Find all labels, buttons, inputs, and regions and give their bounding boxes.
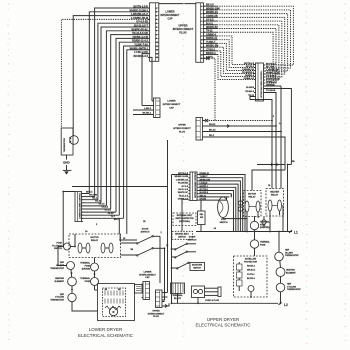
selector block under U3 [198,211,206,225]
svg-text:INTERCONNECT: INTERCONNECT [173,128,191,130]
relay coil K3 [262,216,266,228]
svg-text:LOWER: LOWER [167,101,176,103]
svg-text:PK-5C: PK-5C [108,213,115,215]
svg-text:1A: 1A [85,230,88,233]
svg-text:PK-BK/RD-5: PK-BK/RD-5 [242,72,255,74]
svg-text:INTERCONNECT: INTERCONNECT [148,313,165,315]
terminal block TB1 [171,283,185,300]
svg-text:ELECTRICAL SCHEMATIC: ELECTRICAL SCHEMATIC [195,322,251,327]
wire U3 to broken belt switch [182,199,188,231]
svg-text:FUSE: FUSE [85,266,91,268]
svg-text:L-BU-2: L-BU-2 [144,108,152,110]
hi-limit thermostat (lower) [50,262,74,270]
svg-text:L2: L2 [284,303,288,307]
heating element (lower) [54,277,76,286]
svg-text:10: 10 [201,39,203,41]
svg-text:8: 8 [201,32,202,34]
svg-text:CAP: CAP [167,18,172,21]
svg-text:SWITCH: SWITCH [188,239,197,241]
wires relays to L1 bus [247,205,283,232]
svg-text:BU-21: BU-21 [95,201,102,203]
svg-text:UPPER: UPPER [178,125,186,127]
svg-text:HI-LIMIT: HI-LIMIT [285,252,294,254]
svg-text:FUSE: FUSE [260,224,266,226]
svg-text:WH/BK-8: WH/BK-8 [245,75,255,77]
wire link to upper schematic [72,186,168,188]
relay coil K2 [238,196,242,218]
svg-text:RD-2: RD-2 [209,135,215,137]
svg-text:1A-BK/6: 1A-BK/6 [246,86,255,89]
svg-text:14: 14 [156,56,158,59]
svg-text:PLUG: PLUG [179,31,186,35]
svg-text:HEATING: HEATING [286,269,295,272]
connector P1 lower interconnect cap [148,3,159,62]
svg-text:HEATING: HEATING [55,277,64,280]
svg-text:SWITCH: SWITCH [141,232,150,234]
wire vertical link between schematics [167,140,169,293]
svg-text:CYCLING: CYCLING [287,286,296,288]
svg-text:2: 2 [231,195,233,197]
cycling thermostat (upper) [276,283,301,292]
svg-text:11: 11 [156,46,158,48]
svg-text:CAP: CAP [145,276,150,279]
wire bundle P2 to left side of board connector [203,36,255,80]
svg-text:1A: 1A [214,227,217,230]
svg-text:2: 2 [273,116,275,118]
wire fuse chain (upper) [254,216,256,256]
wire fuse chain (lower) [95,258,98,291]
svg-text:EXTERNAL BELT: EXTERNAL BELT [177,214,193,217]
svg-text:ELEMENT: ELEMENT [286,273,296,275]
svg-text:ELEMENT: ELEMENT [54,281,64,283]
svg-text:OR-4.2: OR-4.2 [102,206,109,209]
svg-text:PUSH: PUSH [56,242,62,244]
thermal fuse F2 (lower) [80,277,98,285]
svg-text:8: 8 [156,34,157,36]
svg-text:LOWER MACHINE CONTROL: LOWER MACHINE CONTROL [78,192,81,219]
svg-text:18: 18 [268,185,271,187]
wire across top between P1 and P2 [159,3,196,5]
svg-text:HBF: HBF [60,262,65,264]
connector P6 upper interconnect plug (bottom) [156,290,164,308]
svg-text:2: 2 [161,232,163,234]
svg-text:12: 12 [156,50,158,52]
svg-text:13: 13 [201,51,203,53]
svg-text:THERMOSTAT: THERMOSTAT [50,267,64,270]
pin labels U2 fan [86,191,119,220]
svg-text:1-WH/BK-2A: 1-WH/BK-2A [242,68,255,71]
svg-text:18: 18 [166,245,169,247]
wire volt switch to L1 bus [223,218,247,232]
hi-limit thermostat (upper) [275,249,300,260]
wire L1 feeder from U1 [265,89,291,165]
connector U2 lower machine control board [75,192,83,222]
svg-text:15: 15 [201,58,203,60]
wire fan right of U3 [199,175,245,232]
svg-text:(OPTIONAL): (OPTIONAL) [179,220,190,223]
svg-text:7: 7 [201,28,202,30]
svg-text:SWITCH: SWITCH [178,236,186,238]
label P5 [139,271,156,279]
svg-text:RELAY: RELAY [91,239,99,242]
label P4 [173,125,191,134]
svg-text:PK-BK/RD: PK-BK/RD [178,183,189,185]
svg-text:THERMAL: THERMAL [80,262,91,265]
wire labels right of U3 [200,173,211,201]
svg-text:MOTOR: MOTOR [248,194,257,196]
connector P4 upper interconnect plug (4-pin) [196,118,204,141]
svg-text:SW: SW [200,217,203,219]
connector P3 lower interconnect cap (4-pin) [152,98,160,118]
svg-text:BROKEN BELT: BROKEN BELT [175,233,189,235]
broken belt switch box [172,231,193,239]
svg-text:DOOR: DOOR [142,229,149,231]
svg-text:2: 2 [96,224,98,226]
label L2 [279,302,288,307]
svg-text:UPPER MACHINE CONTROL: UPPER MACHINE CONTROL [194,171,197,198]
svg-text:FUSE: FUSE [85,281,91,283]
svg-text:1: 1 [156,8,157,10]
svg-text:SEL: SEL [200,214,205,216]
svg-text:2: 2 [201,10,202,12]
svg-text:1-WH/BK-3B: 1-WH/BK-3B [266,70,279,72]
wire top rail of upper schematic [257,163,285,166]
svg-text:12: 12 [201,47,203,49]
svg-text:WH/BK-10.5M: WH/BK-10.5M [266,73,280,75]
wire labels at P1 [130,6,149,58]
svg-text:HBF: HBF [285,249,290,251]
svg-text:BR-2: BR-2 [114,219,120,221]
svg-text:PLUG: PLUG [153,316,159,318]
svg-text:5: 5 [201,21,202,23]
svg-text:LOWER: LOWER [166,11,175,14]
relay K2 motor relay (upper) [244,191,262,217]
svg-text:INTERCONNECT: INTERCONNECT [161,14,181,17]
wire harness from P1 (left fan turning down) [61,8,152,234]
svg-text:UPPER: UPPER [179,23,188,27]
svg-text:GND: GND [63,161,71,165]
wires from P6 [164,293,170,308]
svg-text:14: 14 [201,53,203,56]
label upper interconnect plug [173,23,194,34]
label L1 [289,230,298,235]
thermistor RT1 [61,128,78,155]
svg-text:LOWER: LOWER [144,271,152,273]
wire relay to door switch [119,218,137,240]
wire L2 bus [172,302,279,304]
svg-text:3: 3 [156,15,157,17]
ground symbol [63,155,72,175]
svg-text:UPPER: UPPER [152,310,160,312]
connector U3 upper machine control board [188,171,198,200]
svg-text:CAP: CAP [169,106,174,109]
svg-text:THERMOSTAT: THERMOSTAT [285,254,299,257]
label P3 [163,101,181,110]
svg-text:FUSE: FUSE [260,244,266,246]
svg-text:WH-BU-4: WH-BU-4 [247,269,256,272]
svg-text:GY-9.5: GY-9.5 [105,210,112,212]
door switch S4 (upper) [172,236,197,258]
wire door switch down [162,248,165,300]
svg-text:TN-6.5: TN-6.5 [98,204,105,206]
svg-text:1-WH/BK-2A: 1-WH/BK-2A [176,178,189,181]
svg-text:THERMOSTAT: THERMOSTAT [287,288,301,291]
svg-text:1M: 1M [105,289,108,291]
wire P4 pin4 [204,135,285,170]
wire feed to push-to-start switch [63,192,75,247]
svg-text:RD-BK-2: RD-BK-2 [247,266,255,268]
caption lower dryer electrical schematic [78,327,134,338]
svg-text:10: 10 [156,42,158,44]
wire labels left of U1 [242,63,255,97]
svg-text:THERMISTOR: THERMISTOR [64,138,66,153]
svg-text:GY-BU-5.5: GY-BU-5.5 [266,76,277,78]
svg-text:WH-10M: WH-10M [89,194,97,196]
svg-text:M: M [113,312,115,314]
wire feeder x272 [250,97,272,189]
svg-text:INTERCONNECT: INTERCONNECT [139,274,156,276]
svg-text:THERMAL: THERMAL [260,220,271,223]
svg-text:PROTECTOR: PROTECTOR [244,261,258,263]
wires into P3 lower pins [133,108,154,115]
svg-text:LOWER DRYER: LOWER DRYER [89,327,123,332]
svg-text:THERMAL: THERMAL [80,277,91,280]
svg-text:2: 2 [156,12,157,14]
svg-text:INTERCONNECT: INTERCONNECT [163,104,181,106]
svg-text:L1: L1 [294,231,298,235]
svg-text:RD-BU-3: RD-BU-3 [245,91,254,93]
wire P4 pin3 [204,130,281,132]
svg-text:4: 4 [156,18,157,21]
svg-text:5B: 5B [292,161,295,163]
svg-text:BK/RD-1-6.5: BK/RD-1-6.5 [134,55,149,58]
thermal fuse F3 (heater) [250,220,270,229]
svg-text:1B: 1B [143,221,146,223]
label GND [63,161,71,165]
svg-text:BK/TN-6.5: BK/TN-6.5 [266,64,277,66]
svg-text:OR/BK-4.2: OR/BK-4.2 [244,77,255,80]
svg-text:BK-RD-6: BK-RD-6 [247,278,255,280]
svg-text:TO BASE: TO BASE [266,89,276,92]
svg-text:RELAY: RELAY [248,196,256,199]
caption upper dryer electrical schematic [195,317,251,328]
wire labels right of U1 [266,64,280,87]
push-to-start switch S1 [64,234,76,250]
svg-text:WH/BU-5.5: WH/BU-5.5 [266,82,277,84]
svg-text:9: 9 [201,36,202,38]
svg-text:DOOR: DOOR [189,236,196,238]
svg-text:MOTOR: MOTOR [90,237,99,239]
wire U3 to selector block [200,201,202,232]
svg-text:13: 13 [156,53,158,55]
svg-text:11: 11 [201,43,203,45]
svg-text:SWITCH: SWITCH [193,268,201,270]
svg-text:RD-2: RD-2 [92,198,98,200]
svg-text:BK-6.5: BK-6.5 [86,191,93,193]
svg-text:RD-TN-2: RD-TN-2 [246,66,255,68]
svg-text:HBF: HBF [60,294,65,296]
svg-text:SATELLITE: SATELLITE [245,257,257,260]
wire with inline splice from P2 pin 15 [203,57,215,121]
svg-text:VOLT: VOLT [221,219,227,221]
svg-text:CYCLING: CYCLING [55,297,64,299]
label P6 [148,310,165,318]
drive motor M1 (lower) [98,284,135,321]
svg-text:SWITCH/DETECTOR: SWITCH/DETECTOR [175,218,194,220]
svg-text:SWITCH: SWITCH [220,222,228,224]
wires to L2 bus [178,292,252,304]
svg-text:1: 1 [201,6,202,8]
label push-to-start [52,242,63,250]
svg-text:BK/TN-6.5: BK/TN-6.5 [244,63,255,65]
svg-text:HBF: HBF [287,283,292,285]
heating element (upper) [276,268,296,277]
wire thermostat chain (lower) [58,247,98,312]
svg-text:BK-RD-1: BK-RD-1 [142,113,151,115]
svg-text:5B: 5B [131,249,134,251]
svg-text:WH/PK-5C: WH/PK-5C [178,192,189,194]
svg-text:THERMAL: THERMAL [260,240,271,243]
svg-text:(HEATER): (HEATER) [260,226,270,229]
svg-text:2M: 2M [118,289,121,291]
svg-text:MOISTURE: MOISTURE [192,265,203,267]
svg-text:3: 3 [201,13,202,15]
external belt switch/detector (optional) [173,213,196,226]
svg-text:7: 7 [156,31,157,33]
wire junction dots [62,120,288,305]
power cord and plug [192,286,222,302]
wire P4 pin2 [204,124,276,127]
svg-text:GY-TN-1: GY-TN-1 [247,274,254,276]
cycling thermostat (lower) [50,293,76,301]
wire labels at P2 [206,4,220,59]
wire door switch to P5 [159,236,161,283]
svg-text:HEATER: HEATER [270,191,279,194]
svg-text:THERMOSTAT: THERMOSTAT [50,299,64,302]
moisture switch S5 [172,262,205,270]
thermal fuse F1 (lower) [80,262,98,271]
wire labels left of U3 [174,173,188,201]
svg-text:PLUG: PLUG [179,131,185,133]
svg-text:BK-6.5: BK-6.5 [209,130,216,132]
thermal fuse F4 [250,240,270,248]
wire L1 bus [196,231,292,233]
door switch S2 (lower) [121,229,165,257]
wire left rail (upper schematic) [172,175,189,304]
label to-base [266,89,276,92]
svg-text:ELECTRICAL SCHEMATIC: ELECTRICAL SCHEMATIC [78,333,134,338]
buzzer BZ1 [135,285,144,294]
wire feeder x281 [265,86,281,189]
satellite protector module [234,256,268,297]
connector P5 lower interconnect cap (bottom) [142,282,150,300]
svg-text:UPPER MACHINE CONTROL: UPPER MACHINE CONTROL [260,70,263,98]
wire thermostat chain (upper) [279,232,281,304]
svg-text:WH/BK-10.5M: WH/BK-10.5M [174,176,188,178]
svg-text:5: 5 [156,23,157,25]
relay K1 motor relay (lower) [69,234,121,258]
connector P2 upper interconnect plug [196,3,205,63]
svg-text:TN-21-6.5: TN-21-6.5 [179,195,189,197]
svg-text:UPPER DRYER: UPPER DRYER [207,317,240,322]
volt switch S3 [218,197,229,224]
connector U1 machine control board header [254,63,265,101]
junction reference numbers [85,116,295,251]
svg-text:GY-9.5: GY-9.5 [182,186,189,188]
wire feeder x276 [265,93,276,189]
svg-text:6: 6 [201,25,202,27]
relay K3 heater relay (upper) [266,189,284,217]
svg-text:YL-7: YL-7 [111,216,116,218]
svg-text:WH/PK-(R)-5C: WH/PK-(R)-5C [266,79,280,81]
svg-text:WH-21: WH-21 [209,124,216,126]
wire L1 drop [288,165,292,232]
svg-text:BU-TN-2: BU-TN-2 [266,67,275,69]
svg-text:1A: 1A [279,122,282,125]
wire stubs into lower interconnect cap P3 [142,101,154,106]
svg-text:4: 4 [201,16,202,19]
svg-text:9: 9 [156,38,157,40]
label lower interconnect cap [161,11,181,21]
wire fan into lower control connector [82,194,124,219]
svg-text:CORD & PLUG: CORD & PLUG [205,300,219,302]
svg-text:6: 6 [156,27,157,29]
svg-text:(DRYER): (DRYER) [82,268,91,270]
wire P4 pin1 with splice [204,119,272,122]
wire feeder to motor relay [252,170,285,191]
svg-text:RELAY: RELAY [271,194,279,197]
wire bundle P2 to right side of board connector (nested corners) [203,6,293,86]
